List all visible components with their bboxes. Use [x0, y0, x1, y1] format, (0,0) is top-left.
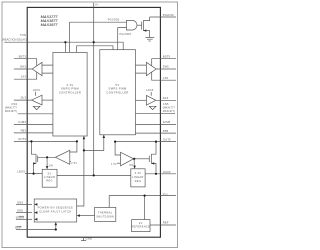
- svg-text:DL5: DL5: [163, 96, 169, 100]
- svg-text:SMPS PWM: SMPS PWM: [61, 87, 79, 91]
- svg-text:REG: REG: [46, 180, 53, 183]
- svg-text:FB5: FB5: [163, 129, 169, 133]
- svg-text:ON5: ON5: [17, 209, 23, 213]
- svg-text:REF: REF: [163, 221, 169, 225]
- svg-text:(REACTION DELAY): (REACTION DELAY): [2, 39, 26, 42]
- svg-text:LINEAR: LINEAR: [44, 176, 55, 179]
- svg-text:ON3: ON3: [17, 201, 23, 205]
- svg-text:CONTROLLER: CONTROLLER: [59, 90, 81, 94]
- svg-text:LINEAR: LINEAR: [132, 176, 143, 179]
- svg-text:GND: GND: [86, 237, 93, 241]
- svg-text:POWER-ON SEQUENCE: POWER-ON SEQUENCE: [38, 207, 74, 210]
- svg-text:DH5: DH5: [163, 65, 169, 69]
- svg-text:OUT5: OUT5: [163, 137, 171, 141]
- svg-text:CS3: CS3: [11, 102, 17, 106]
- svg-text:ON: ON: [49, 165, 53, 168]
- svg-text:ILIM3: ILIM3: [19, 120, 27, 124]
- svg-text:CLEAR FAULT LATCH: CLEAR FAULT LATCH: [39, 211, 71, 214]
- svg-text:LDO5: LDO5: [146, 89, 154, 92]
- svg-text:1.5V: 1.5V: [111, 163, 117, 166]
- svg-text:MAX1977: MAX1977: [41, 23, 59, 27]
- svg-text:SHUTDOWN: SHUTDOWN: [96, 215, 114, 218]
- svg-text:REG: REG: [135, 180, 142, 183]
- svg-text:LDO5: LDO5: [33, 89, 41, 92]
- svg-text:PGOOD3: PGOOD3: [108, 18, 120, 21]
- svg-text:5V: 5V: [116, 83, 120, 87]
- svg-text:V+: V+: [95, 3, 99, 7]
- svg-text:OUT3: OUT3: [18, 137, 26, 141]
- svg-text:SMPS PWM: SMPS PWM: [109, 87, 127, 91]
- svg-text:BST3: BST3: [19, 55, 27, 59]
- svg-text:LX5: LX5: [163, 76, 169, 80]
- svg-text:CS5: CS5: [163, 102, 169, 106]
- svg-text:ON: ON: [129, 164, 133, 167]
- svg-text:3.3V: 3.3V: [135, 172, 142, 175]
- svg-text:2V: 2V: [139, 222, 143, 225]
- svg-text:PGOOD: PGOOD: [163, 13, 174, 17]
- svg-text:LDO3: LDO3: [163, 170, 171, 174]
- svg-text:BST5: BST5: [163, 55, 171, 59]
- svg-text:DL3: DL3: [21, 96, 27, 100]
- svg-text:CONTROLLER: CONTROLLER: [106, 90, 128, 94]
- svg-text:THERMAL: THERMAL: [98, 212, 113, 215]
- svg-text:LDO5: LDO5: [17, 170, 25, 174]
- svg-text:5V: 5V: [48, 172, 52, 175]
- svg-text:PGOOD5: PGOOD5: [120, 33, 132, 36]
- svg-text:MAX1977): MAX1977): [163, 110, 175, 113]
- svg-text:ILIM5: ILIM5: [163, 120, 171, 124]
- svg-text:(MAX1777: (MAX1777: [5, 107, 18, 110]
- svg-text:MAX1977): MAX1977): [5, 110, 17, 113]
- svg-text:REFERENCE: REFERENCE: [131, 226, 150, 229]
- svg-text:3.3V: 3.3V: [66, 83, 73, 87]
- svg-text:TON: TON: [20, 33, 26, 37]
- svg-text:(MAX1777: (MAX1777: [163, 107, 176, 110]
- svg-text:FB3: FB3: [21, 129, 27, 133]
- svg-text:DH3: DH3: [20, 65, 26, 69]
- svg-text:2.5V: 2.5V: [71, 162, 77, 165]
- svg-text:LX3: LX3: [21, 75, 27, 79]
